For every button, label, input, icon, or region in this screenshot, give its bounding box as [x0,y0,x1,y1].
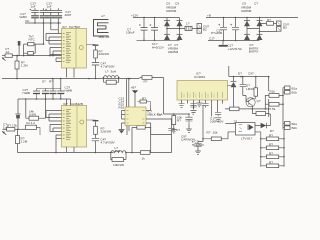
resistor R11 label [142,97,146,101]
capacitor C16 [55,8,63,23]
svg-text:1k: 1k [142,156,146,160]
resistor R15 [267,22,277,26]
ground U3 [119,123,125,134]
transistor U3 pin numbers [127,111,145,124]
wire opto right to ladder [255,132,262,167]
inductor L1 label [186,21,190,25]
diode D1 [164,18,170,41]
svg-text:C1?: C1? [209,37,215,41]
svg-text:R16: R16 [119,105,125,109]
op-amp U1 pin numbers [63,33,71,63]
svg-text:1?: 1? [234,119,238,123]
resistor R20 label [270,107,276,111]
capacitor C26 [50,89,57,100]
svg-text:R?: R? [7,124,11,128]
capacitor C38 label [176,128,180,132]
diode D6 label [238,71,254,75]
svg-text:1uF: 1uF [30,5,35,9]
capacitor C33 [190,104,196,115]
capacitor C20 [230,18,239,41]
svg-text:L?: L? [186,21,190,25]
capacitor C37 label [192,140,205,147]
resistor R13 [172,113,176,129]
resistor R9 [141,151,172,155]
wire bridge2 outputs [208,23,277,42]
wire output right rail [282,88,284,130]
resistor R19 label [270,89,276,93]
capacitor C19 label [211,28,222,35]
svg-text:220/1W: 220/1W [101,129,112,133]
resistor R6 label [21,137,28,144]
svg-text:HalfB: HalfB [23,91,30,95]
svg-text:10k: 10k [213,130,218,134]
resistor R8 label [113,163,124,167]
capacitor C23 label [23,88,30,95]
resistor R1 [15,55,19,79]
capacitor C13 label [30,2,36,9]
connector CN5 label [292,86,298,94]
capacitor C15 [45,8,54,23]
resistor R24 [261,155,284,159]
ground R13 [171,130,177,133]
svg-text:Ca: Ca [157,112,161,116]
optocoupler PC123 label [241,136,253,140]
wire U3 right pins [146,108,172,135]
svg-text:B2b: B2b [292,126,298,130]
capacitor C18 [150,18,159,41]
resistor R26 [103,77,120,85]
fuse F1 label [6,47,11,54]
capacitor C35 [215,113,221,122]
connector CN4 [277,21,282,31]
capacitor C21 label [65,86,72,93]
capacitor C14 label [19,12,27,19]
svg-text:LTV-817: LTV-817 [241,136,253,140]
svg-text:+B: +B [207,13,211,17]
wire feedback loop [151,119,172,153]
svg-text:400T: 400T [65,13,72,17]
ground pin4 [197,103,203,107]
node C1? label [234,119,238,123]
resistor R22 [261,137,284,141]
connector AC input [2,56,6,61]
connector CN3 label [203,24,209,31]
node BATTERY label [249,43,259,54]
capacitor C3 [92,63,99,80]
svg-text:Q?: Q? [257,99,261,103]
transistor Q1 [246,98,255,109]
resistor R1 label [21,61,28,68]
svg-text:10R/1W: 10R/1W [113,163,124,167]
wire U3 left pins [122,111,126,124]
capacitor C28 [15,99,20,129]
svg-text:13k: 13k [12,124,17,128]
wire IC2 left pins [46,111,62,154]
resistor R18 [252,109,268,116]
svg-text:C2.1.2: C2.1.2 [26,121,35,125]
resistor R21 [197,132,229,141]
svg-text:+12V/0.5A: +12V/0.5A [228,47,243,51]
capacitor C3 label [101,62,116,69]
svg-text:4.7uF/50V: 4.7uF/50V [101,140,116,144]
resistor R25 [261,164,284,168]
svg-text:S?: S? [42,80,46,84]
ground C31 [186,124,192,132]
op-amp U2 (driver IC body) [62,106,87,148]
node secondary bottom rail [110,152,127,154]
svg-text:3uH: 3uH [111,70,117,74]
svg-text:+B?: +B? [131,86,137,90]
resistor R11 [138,100,151,108]
connector CN6 label [292,122,298,130]
node primary minus rail [2,78,140,84]
svg-text:D?: D? [238,71,242,75]
resistor R23 [261,146,284,150]
svg-text:UR05M: UR05M [241,9,252,13]
wire IC2 bottom stubs [67,147,75,153]
op-amp U1 (PWM IC body) [62,29,87,69]
svg-text:UR05M: UR05M [166,9,177,13]
resistor R20 [269,102,283,106]
svg-text:H=5/12V: H=5/12V [152,45,165,49]
wire aux top rail [229,66,270,77]
heatsink HS1 label2 [99,35,110,39]
connector CN3 [195,24,202,34]
node +12V/0.5A label [228,44,243,51]
svg-text:C?: C? [254,2,258,6]
svg-text:MBL-05: MBL-05 [99,35,110,39]
resistor R24 label [269,151,273,155]
capacitor C32 (pin1 to gnd) [179,104,185,108]
resistor R12 [140,76,164,80]
inductor L2 label [115,146,121,153]
node mid rail [18,98,71,100]
resistor R5 [7,128,26,131]
resistor R12 label [144,79,148,83]
connector CN4 label [283,22,289,29]
svg-text:R?: R? [177,118,181,122]
svg-text:B1b: B1b [292,90,298,94]
capacitor C34 (pin5) [202,104,208,108]
connector CN6 [283,122,290,130]
svg-text:NTC: NTC [29,38,36,42]
resistor R3 label [99,49,110,56]
wire ladder right rail [283,130,285,167]
connector DC input [2,129,7,134]
svg-text:100uF: 100uF [126,30,135,34]
diode D4 [257,18,263,41]
capacitor C41 label [101,138,116,145]
wire U4 bottom pins [182,100,223,117]
svg-text:L?: L? [105,70,109,74]
capacitor C24 [33,89,61,100]
capacitor C25 [42,89,49,100]
heatsink HS1 label [101,14,105,18]
diode D1 bottom label [168,43,179,54]
capacitor C37 [192,105,204,151]
svg-text:2.2M: 2.2M [21,139,28,143]
resistor R6 [16,129,114,152]
node +B flag [132,90,138,107]
node net labels left of U3 [119,96,125,109]
varistor Z1 [18,41,21,56]
resistor R14 label [29,110,36,117]
diode D2 [177,18,183,41]
op-amp U1 label [62,25,80,29]
svg-text:220/1W: 220/1W [99,52,110,56]
capacitor C41 [92,138,99,153]
diode D3 [244,18,250,41]
inductor L2 [111,151,126,153]
thermistor TH1 [24,42,44,45]
thermistor TH1 label [29,35,36,42]
capacitor C27 [57,89,64,100]
op-amp U4 pin labels [182,92,223,98]
diode D3 label [241,2,258,13]
svg-text:UR05M: UR05M [168,50,179,54]
op-amp U4 label [194,72,205,79]
svg-text:Vin: Vin [25,19,30,23]
svg-text:4.7uF/50V: 4.7uF/50V [101,64,116,68]
wire cap row feeds [53,79,61,89]
resistor R2 [23,43,44,57]
optocoupler PC123 [236,123,256,136]
resistor R19 [265,94,284,110]
connector CN5 [283,86,290,94]
resistor R14 [25,98,46,120]
resistor R10 [131,126,151,154]
resistor R22 label [269,133,273,137]
resistor R3 [87,45,99,63]
svg-text:MBLK-PLA: MBLK-PLA [148,113,164,117]
svg-text:+12V: +12V [131,13,139,17]
zener D7 label [246,84,257,91]
wire to IC3 ground net [157,78,189,117]
capacitor C14 [40,8,48,23]
diode D8 label [270,129,274,133]
wire IC2 top stubs [67,99,71,106]
svg-text:1.2M: 1.2M [21,63,28,67]
resistor R9 label [142,156,146,160]
diode D1 label [166,2,179,13]
node label C1x [152,42,165,49]
svg-text:R?: R? [49,80,53,84]
resistor R21 label [207,130,218,134]
node +B flag label [131,86,137,90]
diode D5 [228,77,237,109]
node +12V rail [131,13,180,18]
wire loop left edge [150,127,152,152]
resistor R17 [230,107,240,111]
svg-text:UC3842: UC3842 [194,75,205,79]
capacitor C38 [168,128,174,130]
transistor U3 label [148,110,164,117]
resistor R13 label [177,116,182,123]
svg-text:B3: B3 [283,26,287,30]
ground C37 [195,151,201,154]
node label C1y [209,37,215,41]
capacitor C17 [139,18,148,41]
inductor L1 [185,26,197,30]
capacitor C16 label [65,10,72,17]
wire IC1 left pins [46,34,62,62]
capacitor C15 label [46,2,52,9]
transistor Q1 label [257,99,261,103]
diode D8 [255,114,271,128]
node Vin rail [25,19,61,24]
transistor U3 (coupler IC body) [125,107,146,126]
svg-text:R?: R? [144,79,148,83]
wire opto left [225,124,235,132]
svg-text:C9?: C9? [248,71,254,75]
capacitor C28 label [3,123,8,130]
wire bridge1 output [137,28,186,41]
op-amp U4 (PWM IC wide body) [177,81,228,101]
wire aux right rail [268,77,270,117]
svg-text:R?: R? [207,130,211,134]
connector CN2 label [26,121,35,125]
svg-text:C?: C? [176,128,180,132]
op-amp U2 pin numbers [63,110,71,140]
resistor R23 label [269,142,273,146]
svg-text:1uF: 1uF [46,5,51,9]
svg-text:H?u45B: H?u45B [211,31,222,35]
capacitor C39 [240,77,249,102]
heatsink HS1 [94,20,109,37]
capacitor C31 label [181,135,195,142]
svg-text:0.5W: 0.5W [29,112,36,116]
resistor R5 label [7,124,17,128]
fuse F1 [5,54,61,57]
resistor R7 label [101,127,112,134]
resistor R16 [252,77,257,100]
svg-text:B2: B2 [203,28,207,32]
capacitor C19 [218,18,227,46]
wire aux bottom rail [225,108,270,110]
svg-text:R1k: R1k [270,89,276,93]
capacitor C31 [185,113,192,124]
resistor R25 label [269,160,273,164]
resistor R8 [111,153,141,162]
resistor R7 [87,120,99,138]
svg-text:HalfB: HalfB [65,88,72,92]
wire cap bank drops [44,23,59,43]
wire U3 bottom stubs [127,126,129,136]
svg-text:BATRY: BATRY [249,50,259,54]
connector CN2 [26,125,40,135]
node +B rail [206,13,298,18]
capacitor C17 label [126,27,135,34]
wire IC1 bottom stubs [67,68,75,78]
svg-text:7.5k: 7.5k [270,107,276,111]
capacitor C35 label [210,117,224,124]
capacitor C13 [29,8,38,23]
resistor R15 label [267,18,271,22]
inductor L3 [104,76,119,78]
inductor L3 label [105,70,116,74]
svg-text:u?: u? [101,14,105,18]
wire U3 supply verticals [127,79,129,108]
op-amp U2 label [63,102,83,106]
